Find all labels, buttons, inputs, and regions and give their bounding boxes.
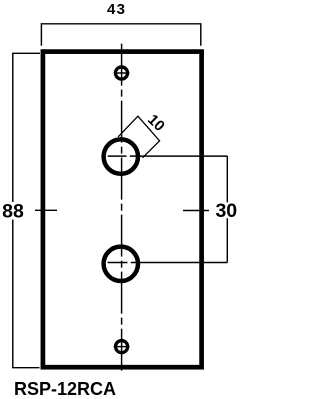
svg-text:43: 43 [107,1,126,18]
dimension 88 bracket [13,53,40,367]
screw hole bottom [116,341,128,353]
RCA hole bottom [104,247,138,281]
svg-text:30: 30 [215,200,237,222]
diameter 10 callout diamond [118,116,159,158]
screw hole top [115,67,127,79]
panel outline [43,52,202,368]
panel horizontal center tick right [183,210,209,212]
dimension 30 extension line bottom [108,262,228,264]
svg-text:88: 88 [2,201,24,223]
vertical centerline [121,44,123,373]
dimension 43 bracket [41,24,200,46]
screw hole top crosshair [114,72,130,74]
panel horizontal center tick left [35,209,57,211]
RCA hole top [104,139,138,173]
dimension 30 line [226,156,228,262]
dimension 30 label background [215,202,239,218]
screw hole bottom crosshair [114,346,130,348]
dimension 30 extension line top [108,155,228,157]
svg-text:RSP-12RCA: RSP-12RCA [14,379,116,399]
dimension 88 label background [2,202,25,220]
